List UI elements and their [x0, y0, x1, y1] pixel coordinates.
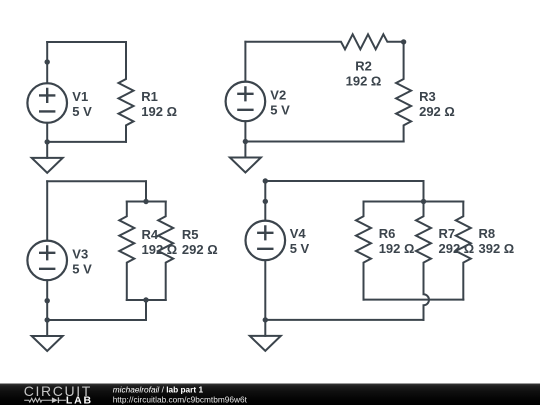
wire V3 positive lead — [46, 181, 48, 240]
svg-text:V3: V3 — [72, 246, 88, 261]
wire drop to parallel bus — [145, 181, 147, 201]
junction V4 ground node — [263, 317, 268, 322]
wire top bus R6 R7 R8 — [364, 201, 464, 203]
svg-text:292 Ω: 292 Ω — [439, 241, 475, 256]
svg-text:192 Ω: 192 Ω — [346, 74, 382, 89]
svg-text:5 V: 5 V — [270, 102, 290, 117]
CircuitLab logo diode triangle — [52, 397, 58, 403]
junction V2 negative node — [243, 139, 248, 144]
junction top bus node circuit 4 — [421, 199, 426, 204]
junction node A — [45, 59, 50, 64]
ground circuit 2 — [244, 142, 246, 158]
voltage source V2 — [226, 82, 266, 122]
ground circuit 4 — [264, 320, 266, 336]
junction on V4 positive wire — [263, 199, 268, 204]
svg-text:http://circuitlab.com/c9bcmtbm: http://circuitlab.com/c9bcmtbm96w6t — [113, 394, 248, 404]
CircuitLab logo schematic: resistor squiggle and diode — [24, 397, 66, 403]
footer bar — [0, 384, 540, 405]
wire V1 positive lead — [46, 42, 48, 83]
wire top of circuit 1 — [47, 41, 126, 43]
resistor R4 — [119, 202, 134, 301]
wire V3 negative lead — [46, 280, 48, 320]
svg-text:5 V: 5 V — [72, 104, 92, 119]
svg-text:292 Ω: 292 Ω — [182, 242, 218, 257]
svg-text:192 Ω: 192 Ω — [141, 104, 177, 119]
junction top bus node — [143, 199, 148, 204]
voltage source V4 — [245, 221, 285, 261]
resistor R3 — [396, 42, 411, 142]
svg-text:V2: V2 — [270, 87, 286, 102]
wire top of circuit 3 — [47, 180, 146, 182]
wire bottom of circuit 4 — [265, 319, 423, 321]
resistor R5 — [158, 202, 173, 301]
resistor R2 — [245, 34, 403, 49]
wire bottom of circuit 1 — [47, 141, 126, 143]
ground circuit 1 — [46, 142, 48, 158]
svg-text:292 Ω: 292 Ω — [419, 104, 455, 119]
svg-text:R8: R8 — [479, 226, 496, 241]
wire V4 negative lead — [264, 260, 266, 320]
svg-text:5 V: 5 V — [290, 241, 310, 256]
wire bottom of circuit 2 — [245, 141, 403, 143]
wire bottom bus R4 R5 — [127, 299, 166, 301]
wire top of circuit 4 — [265, 180, 423, 182]
resistor R8 — [456, 202, 471, 300]
wire bus to bottom rail — [145, 300, 147, 320]
wire V4 positive lead — [264, 181, 266, 221]
ground circuit 3 — [46, 320, 48, 336]
svg-text:R4: R4 — [142, 227, 159, 242]
svg-text:192 Ω: 192 Ω — [142, 242, 178, 257]
junction V1 negative node — [45, 139, 50, 144]
svg-text:5 V: 5 V — [72, 261, 92, 276]
svg-text:michaelrofail / lab part 1: michaelrofail / lab part 1 — [113, 385, 204, 395]
resistor R1 — [119, 42, 134, 142]
resistor R7 with wire hop over bottom bus — [416, 202, 431, 320]
svg-text:R5: R5 — [182, 227, 199, 242]
resistor R6 — [356, 202, 371, 300]
voltage source V1 — [27, 83, 67, 123]
svg-text:V4: V4 — [290, 226, 307, 241]
wire drop to parallel bus circuit 4 — [423, 181, 425, 202]
junction bottom bus node — [143, 297, 148, 302]
wire V2 positive lead — [244, 42, 246, 82]
svg-text:R2: R2 — [355, 59, 372, 74]
wire V2 negative lead — [244, 121, 246, 141]
junction at V4 top corner — [263, 178, 268, 183]
junction on V3 negative wire — [45, 298, 50, 303]
wire top bus R4 R5 — [127, 201, 166, 203]
svg-text:R3: R3 — [419, 89, 436, 104]
svg-text:R1: R1 — [141, 89, 158, 104]
svg-text:LAB: LAB — [66, 394, 92, 405]
svg-text:392 Ω: 392 Ω — [479, 241, 515, 256]
wire V1 negative lead — [46, 123, 48, 142]
svg-text:R7: R7 — [439, 226, 456, 241]
voltage source V3 — [27, 241, 67, 281]
wire bottom of circuit 3 — [47, 319, 146, 321]
junction V3 ground node — [45, 317, 50, 322]
wire bottom bus R6 R8 — [364, 299, 464, 301]
svg-text:V1: V1 — [72, 89, 88, 104]
svg-text:R6: R6 — [379, 226, 396, 241]
junction node B between R2 and R3 — [401, 39, 406, 44]
svg-text:192 Ω: 192 Ω — [379, 241, 415, 256]
